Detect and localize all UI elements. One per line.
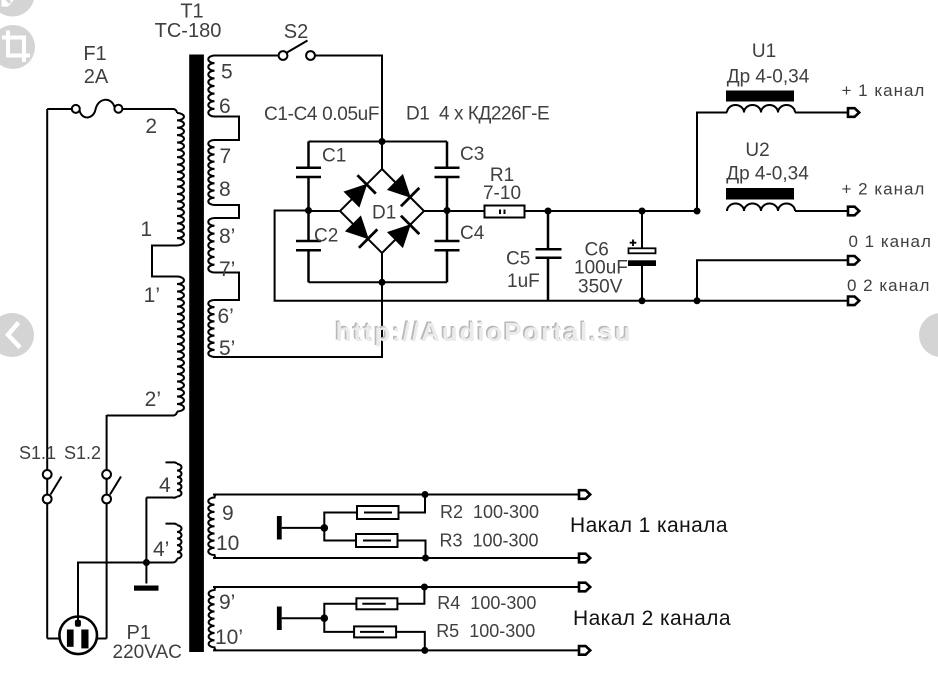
svg-text:2A: 2A bbox=[84, 66, 109, 88]
fuse F1 left contact bbox=[72, 105, 80, 113]
wire left to plug bbox=[47, 638, 60, 640]
wire R2 to top rail bbox=[399, 495, 426, 513]
secondary winding 6'-5' (T1 right) bbox=[208, 300, 214, 357]
svg-text:R4 100-300: R4 100-300 bbox=[437, 593, 536, 613]
resistor R2 bbox=[357, 506, 399, 519]
winding 4 bottom lead bbox=[146, 497, 177, 498]
secondary winding 5-6 (T1 right) bbox=[208, 56, 214, 117]
diode D1c (left-bottom) bbox=[344, 215, 377, 248]
svg-text:9: 9 bbox=[222, 502, 234, 525]
terminal 0 1 channel bbox=[848, 256, 859, 265]
winding 4' top stub bbox=[166, 524, 178, 526]
ground bar bbox=[134, 586, 159, 591]
svg-text:1’: 1’ bbox=[144, 284, 160, 307]
svg-text:7: 7 bbox=[220, 145, 232, 168]
switch S2 contact right bbox=[306, 51, 315, 60]
winding 4 (T1 left lower) bbox=[177, 464, 182, 497]
terminal 0 2 channel bbox=[848, 297, 859, 306]
junction heater2 tap bbox=[321, 614, 329, 622]
resistor R1 bbox=[485, 206, 525, 218]
resistor R3 bbox=[356, 534, 398, 547]
wire U1 to terminal bbox=[795, 112, 848, 114]
svg-text:C1: C1 bbox=[322, 146, 346, 167]
svg-text:1: 1 bbox=[140, 218, 152, 241]
svg-text:4’: 4’ bbox=[153, 538, 169, 561]
svg-text:4: 4 bbox=[159, 474, 171, 497]
junction heater2 bottom bbox=[421, 647, 428, 654]
choke U2 winding bbox=[727, 204, 795, 211]
secondary winding 7-8 (T1 right) bbox=[208, 140, 214, 205]
junction heater1 bottom bbox=[422, 555, 429, 562]
primary tap 1 to 1' jog bbox=[152, 246, 177, 277]
wire heater2 top rail bbox=[213, 586, 579, 588]
svg-text:+ 2 канал: + 2 канал bbox=[842, 180, 926, 199]
capacitor C2 bbox=[296, 211, 321, 283]
svg-text:7’: 7’ bbox=[219, 258, 235, 281]
svg-text:C5: C5 bbox=[506, 249, 530, 270]
svg-text:2’: 2’ bbox=[145, 388, 161, 411]
winding jog 7'-6' bbox=[215, 273, 240, 301]
capacitor C3 bbox=[435, 142, 460, 211]
svg-text:0 1 канал: 0 1 канал bbox=[849, 232, 932, 251]
svg-text:8’: 8’ bbox=[219, 225, 235, 248]
switch S1.1 lever bbox=[51, 477, 62, 495]
wire plug ground to node bbox=[78, 563, 146, 621]
svg-text:U2: U2 bbox=[745, 140, 769, 161]
svg-text:100uF: 100uF bbox=[574, 258, 628, 279]
winding 9'-10' (T1 right) bbox=[209, 587, 216, 650]
switch S1.2 top contact bbox=[102, 470, 111, 479]
diode D1d (bottom-right) bbox=[386, 216, 419, 249]
junction plus-chokes bbox=[694, 208, 701, 215]
svg-text:7-10: 7-10 bbox=[483, 183, 521, 204]
svg-text:D1 4 x КД226Г-Е: D1 4 x КД226Г-Е bbox=[406, 104, 549, 125]
junction heater1 tap bbox=[321, 524, 329, 532]
UI button previous (left edge) bbox=[0, 313, 34, 357]
wire fuse to primary terminal 2 bbox=[123, 109, 178, 113]
switch S1.2 bottom contact bbox=[102, 495, 111, 504]
junction C1-C2 node bbox=[305, 207, 312, 214]
switch S2 contact left bbox=[279, 51, 288, 60]
switch S1.1 bottom contact bbox=[43, 495, 52, 504]
wire U2 to terminal bbox=[795, 210, 848, 212]
choke U2 core bbox=[726, 188, 794, 200]
wire heater2 bottom rail bbox=[213, 649, 579, 651]
wire bottom cap rail bbox=[309, 281, 448, 283]
svg-text:+ 1 канал: + 1 канал bbox=[842, 81, 926, 100]
heater2 tap bar bbox=[277, 607, 282, 631]
wire bridge plus to R1 bbox=[424, 210, 485, 212]
plug P1 ground pin bbox=[75, 620, 81, 627]
wire mains left vertical bbox=[46, 109, 48, 639]
resistor R4 bbox=[356, 598, 397, 609]
wire windings-4 common bbox=[145, 498, 147, 584]
junction bottom AC node bbox=[379, 279, 386, 286]
UI button next (right edge, clipped) bbox=[919, 313, 938, 357]
svg-text:http://AudioPortal.su: http://AudioPortal.su bbox=[336, 317, 633, 347]
svg-text:2: 2 bbox=[145, 115, 157, 138]
winding 9-10 (T1 right) bbox=[208, 495, 216, 559]
svg-text:C1-C4 0.05uF: C1-C4 0.05uF bbox=[264, 104, 379, 125]
svg-text:10: 10 bbox=[216, 532, 239, 555]
wire tap bar to node1 bbox=[282, 527, 325, 529]
wire R1 to plus rail bbox=[525, 210, 698, 212]
wire S2 to bridge top bbox=[315, 56, 382, 170]
bridge D1 diamond bbox=[340, 169, 424, 253]
wire node1 to R2 bbox=[324, 513, 357, 528]
svg-text:C3: C3 bbox=[460, 144, 484, 165]
UI button rotate (top-left, clipped) bbox=[0, 0, 35, 17]
diode D1b (top-right) bbox=[386, 173, 419, 206]
wire bridge bottom to winding 5' bbox=[213, 253, 382, 357]
svg-text:Др 4-0,34: Др 4-0,34 bbox=[726, 164, 809, 185]
switch S2 lever bbox=[287, 41, 308, 53]
svg-text:220VAC: 220VAC bbox=[113, 642, 182, 663]
capacitor C1 bbox=[296, 142, 321, 211]
wire R4 to top rail bbox=[397, 587, 424, 604]
junction heater1 top bbox=[422, 491, 429, 498]
wire right to plug bbox=[97, 638, 107, 640]
wire top cap rail bbox=[309, 141, 448, 143]
svg-text:8: 8 bbox=[219, 178, 231, 201]
transformer T1 core bbox=[189, 55, 204, 653]
switch S1.1 top contact bbox=[43, 470, 52, 479]
svg-text:S1.1: S1.1 bbox=[19, 443, 56, 463]
svg-text:1uF: 1uF bbox=[507, 271, 540, 292]
junction C3-C4 node bbox=[444, 207, 451, 214]
plug P1 left pin bbox=[67, 630, 74, 647]
svg-text:0 2 канал: 0 2 канал bbox=[847, 276, 930, 295]
svg-text:R2 100-300: R2 100-300 bbox=[440, 502, 539, 522]
winding 4 top stub bbox=[166, 462, 178, 464]
terminal +1 channel bbox=[848, 108, 859, 117]
secondary winding 8'-7' (T1 right) bbox=[208, 218, 214, 273]
winding jog 6-7 bbox=[215, 117, 240, 141]
terminal heater1 bottom bbox=[579, 554, 590, 563]
svg-text:C4: C4 bbox=[460, 223, 485, 244]
diode D1a (left-top) bbox=[343, 175, 376, 208]
wire bridge minus to 0 rail bbox=[275, 211, 548, 301]
svg-text:P1: P1 bbox=[127, 622, 151, 644]
svg-text:5: 5 bbox=[221, 61, 233, 84]
wire tap bar to node2 bbox=[282, 617, 325, 619]
plug P1 body bbox=[59, 617, 97, 655]
junction plus-C5 bbox=[545, 208, 552, 215]
svg-text:R5 100-300: R5 100-300 bbox=[436, 621, 535, 641]
svg-text:S2: S2 bbox=[284, 21, 308, 43]
wire node2 to R5 bbox=[324, 618, 354, 632]
capacitor C6 polarized bbox=[641, 211, 643, 301]
svg-text:TC-180: TC-180 bbox=[155, 20, 222, 42]
fuse F1 right contact bbox=[114, 105, 122, 113]
svg-text:6: 6 bbox=[219, 95, 231, 118]
primary winding 1'-2' (T1 left) bbox=[177, 277, 184, 412]
terminal heater2 top bbox=[579, 583, 590, 592]
winding 4' (T1 left lower) bbox=[177, 525, 182, 558]
junction plus-C6 bbox=[639, 208, 646, 215]
wire plus to U1 bbox=[697, 113, 727, 212]
winding 4' bottom lead bbox=[146, 559, 177, 563]
junction ground node bbox=[143, 559, 150, 566]
plug P1 right pin bbox=[81, 630, 88, 649]
wire heater1 top rail bbox=[213, 494, 579, 496]
label C6 plus sign bbox=[630, 240, 637, 247]
wire S1.2 vertical bbox=[106, 415, 108, 639]
fuse F1 wave bbox=[47, 100, 114, 118]
capacitor C5 bbox=[536, 211, 562, 301]
terminal heater2 bottom bbox=[579, 646, 590, 655]
svg-text:Др 4-0,34: Др 4-0,34 bbox=[727, 67, 810, 88]
svg-text:F1: F1 bbox=[83, 43, 106, 65]
svg-text:D1: D1 bbox=[372, 203, 396, 224]
wire node2 to R4 bbox=[324, 604, 356, 618]
junction heater2 top bbox=[421, 584, 428, 591]
terminal heater1 top bbox=[579, 490, 590, 499]
capacitor C4 bbox=[435, 211, 460, 283]
choke U1 winding bbox=[727, 105, 795, 112]
wire 0 1 branch bbox=[697, 260, 848, 301]
wire R3 to bottom rail bbox=[398, 541, 426, 559]
heater1 tap bar bbox=[277, 516, 282, 540]
wire R5 to bottom rail bbox=[396, 632, 425, 651]
junction 0-branch bbox=[694, 297, 701, 304]
svg-text:10’: 10’ bbox=[215, 626, 243, 649]
svg-text:R3 100-300: R3 100-300 bbox=[440, 531, 539, 551]
wire primary terminal 2' to S1.2 bbox=[107, 412, 177, 416]
wire winding5 to S2 bbox=[213, 55, 278, 57]
svg-text:C2: C2 bbox=[314, 226, 338, 247]
svg-text:350V: 350V bbox=[578, 277, 623, 298]
resistor R5 bbox=[354, 626, 396, 637]
choke U1 core bbox=[726, 91, 794, 102]
winding jog 8-8' bbox=[215, 205, 240, 218]
svg-text:6’: 6’ bbox=[218, 305, 234, 328]
terminal +2 channel bbox=[848, 207, 859, 216]
svg-text:S1.2: S1.2 bbox=[64, 443, 101, 463]
junction top AC node bbox=[379, 138, 386, 145]
svg-text:9’: 9’ bbox=[219, 591, 235, 614]
svg-text:U1: U1 bbox=[752, 41, 776, 62]
svg-text:Накал 2 канала: Накал 2 канала bbox=[573, 607, 731, 630]
wire heater1 bottom rail bbox=[213, 557, 579, 559]
junction 0-C6 bbox=[639, 297, 646, 304]
wire node1 to R3 bbox=[324, 528, 356, 541]
wire 0 rail right bbox=[548, 300, 848, 302]
primary winding 2-1 (T1 left) bbox=[177, 113, 184, 245]
UI button crop (top-left) bbox=[0, 25, 35, 69]
switch S1.2 lever bbox=[110, 477, 121, 495]
svg-text:Накал 1 канала: Накал 1 канала bbox=[570, 514, 728, 537]
